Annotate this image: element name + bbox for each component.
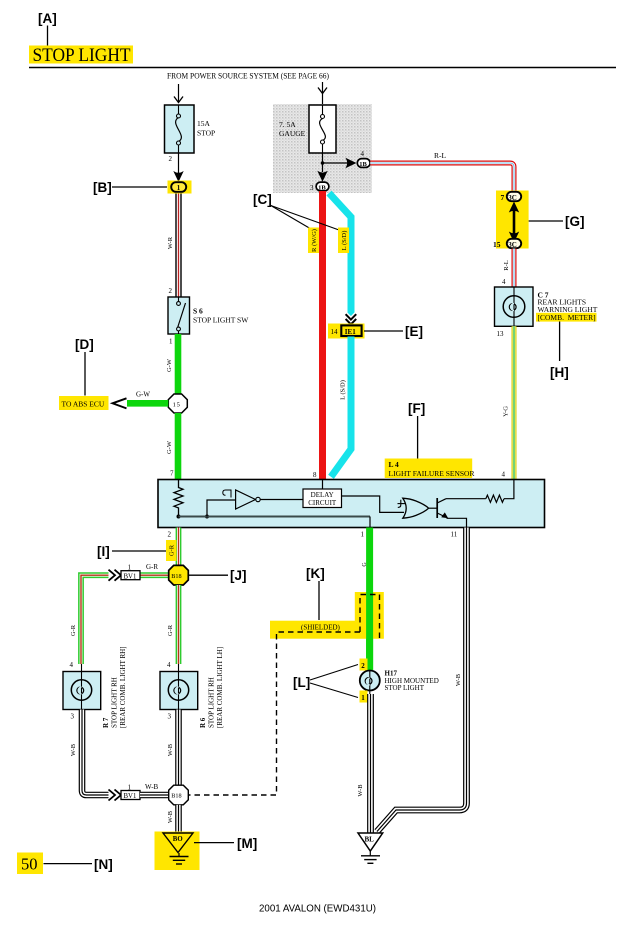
- svg-text:1B: 1B: [318, 184, 326, 191]
- svg-text:G-R: G-R: [169, 544, 176, 556]
- wire W-B BV1 to node B18 lower: [140, 783, 169, 795]
- switch S6 stop light sw: [168, 297, 249, 346]
- label M: [194, 836, 257, 851]
- svg-text:BO: BO: [173, 836, 183, 843]
- svg-text:1: 1: [177, 184, 181, 192]
- svg-text:STOP LIGHT RH: STOP LIGHT RH: [208, 677, 216, 728]
- svg-text:2001 AVALON (EWD431U): 2001 AVALON (EWD431U): [259, 903, 376, 915]
- svg-text:STOP LIGHT RH: STOP LIGHT RH: [111, 677, 119, 728]
- svg-text:STOP: STOP: [197, 129, 215, 138]
- bulb C7 rear lights warning light: [495, 287, 598, 338]
- svg-text:4: 4: [502, 278, 506, 286]
- svg-text:[J]: [J]: [230, 568, 247, 583]
- svg-text:15: 15: [173, 401, 181, 408]
- pin 4 and connector 1B (to R-L): [357, 150, 370, 168]
- wire gauge fuse junction: [317, 153, 356, 182]
- svg-text:15: 15: [493, 240, 501, 249]
- chevrons into BV1 lower: [109, 790, 122, 801]
- resistor R-out: [486, 495, 504, 502]
- svg-text:DELAY: DELAY: [311, 491, 334, 499]
- svg-text:BL: BL: [365, 836, 375, 844]
- delay circuit block: [303, 480, 342, 508]
- svg-text:W-B: W-B: [167, 810, 174, 823]
- power feed arrow to gauge fuse: [318, 82, 327, 105]
- wire G-W junction to sensor pin 7: [166, 413, 178, 480]
- svg-text:[M]: [M]: [237, 836, 257, 851]
- svg-text:GAUGE: GAUGE: [279, 129, 306, 138]
- svg-text:G: G: [362, 562, 368, 567]
- svg-text:IE1: IE1: [345, 328, 356, 336]
- svg-text:[B]: [B]: [93, 180, 112, 195]
- svg-text:G-W: G-W: [136, 391, 150, 399]
- page number 50: [17, 853, 43, 875]
- svg-text:B18: B18: [171, 573, 181, 580]
- title STOP LIGHT: [29, 45, 133, 66]
- connector 1 (B): [168, 181, 192, 194]
- bulb R7 stop light RH: [63, 646, 127, 728]
- svg-text:50: 50: [21, 855, 38, 874]
- svg-text:STOP LIGHT SW: STOP LIGHT SW: [193, 316, 249, 325]
- label J: [189, 568, 247, 583]
- wire gate to Q1: [429, 507, 438, 509]
- svg-text:(SHIELDED): (SHIELDED): [301, 623, 341, 631]
- wire L (S/D) cyan thick upper: [329, 193, 351, 325]
- svg-text:2: 2: [169, 287, 173, 295]
- wire G-R node B18 to R6: [167, 585, 179, 669]
- bulb R6 stop light LH: [160, 647, 224, 728]
- svg-text:1: 1: [361, 531, 365, 539]
- svg-text:R 7: R 7: [102, 717, 110, 728]
- svg-text:4: 4: [361, 150, 365, 158]
- node B18 (junction): [169, 565, 189, 585]
- svg-text:1B: 1B: [359, 161, 367, 168]
- svg-text:3: 3: [310, 184, 314, 192]
- title rule: [29, 67, 616, 69]
- connector 3C pair (G): [493, 191, 529, 250]
- svg-text:8: 8: [313, 471, 317, 479]
- svg-text:4: 4: [502, 471, 506, 479]
- svg-text:TO ABS ECU: TO ABS ECU: [62, 400, 105, 409]
- power feed arrow to 15A fuse: [174, 84, 183, 103]
- svg-text:G-W: G-W: [166, 358, 173, 372]
- wire label G-R highlighted: [166, 540, 177, 561]
- wire R-L horizontal: [370, 151, 514, 192]
- shield dashed outline: [189, 595, 380, 796]
- svg-text:13: 13: [497, 330, 505, 338]
- svg-text:2: 2: [361, 662, 365, 670]
- gray block (power source area): [273, 104, 372, 193]
- label K: [306, 566, 325, 620]
- wire G-R BV1 to R7: [70, 575, 109, 669]
- wire label R (W/G): [308, 228, 319, 254]
- label E: [364, 324, 423, 339]
- wire delay to gate: [342, 496, 405, 512]
- svg-text:[C]: [C]: [253, 192, 272, 207]
- chevrons into BV1 upper: [109, 570, 122, 581]
- wire W-B H17 to ground BL: [357, 694, 371, 833]
- svg-text:STOP LIGHT: STOP LIGHT: [385, 684, 425, 692]
- svg-text:3C: 3C: [508, 194, 517, 202]
- node B18 lower (junction): [169, 785, 189, 805]
- label F: [408, 401, 425, 459]
- svg-text:[A]: [A]: [38, 11, 57, 26]
- node junction dots: [177, 515, 181, 519]
- svg-text:BV1: BV1: [124, 793, 137, 800]
- wire to comparator input: [207, 500, 236, 517]
- wire label L (S/D): [338, 228, 349, 254]
- resistor R-in (pin7): [174, 480, 183, 517]
- pin 3 and connector 1B (to red wire): [310, 182, 329, 192]
- wire G-R node to BV1: [140, 563, 169, 575]
- svg-text:R-L: R-L: [434, 151, 447, 160]
- svg-text:11: 11: [451, 531, 458, 539]
- svg-text:1: 1: [361, 694, 365, 702]
- wire G-W S6 to junction 15: [166, 334, 178, 395]
- wire W-B sensor pin11 to ground BL: [377, 528, 467, 832]
- svg-text:[REAR COMB. LIGHT LH]: [REAR COMB. LIGHT LH]: [216, 647, 224, 728]
- wire R-L vertical to C7: [502, 249, 514, 287]
- connector 14 IE1: [328, 324, 365, 339]
- svg-text:W-B: W-B: [145, 783, 159, 791]
- connector 1 BV1 lower: [121, 784, 140, 801]
- svg-text:R-L: R-L: [503, 260, 510, 271]
- svg-text:G-R: G-R: [146, 563, 158, 571]
- svg-text:R 6: R 6: [199, 717, 207, 728]
- svg-text:Y-G: Y-G: [503, 406, 510, 417]
- wire W-B R7 to BV1 lower: [70, 710, 109, 796]
- svg-text:[L]: [L]: [293, 675, 310, 690]
- svg-text:BV1: BV1: [124, 573, 137, 580]
- wire L (S/D) cyan thick lower: [331, 337, 351, 477]
- svg-text:[I]: [I]: [97, 544, 110, 559]
- wire resistor to pin 4: [504, 480, 514, 499]
- svg-text:B18: B18: [171, 793, 181, 800]
- svg-text:3: 3: [168, 713, 172, 721]
- svg-text:7: 7: [170, 470, 174, 478]
- wire G-W to ABS ECU: [113, 391, 169, 409]
- svg-text:2: 2: [168, 531, 172, 539]
- svg-text:4: 4: [167, 661, 171, 669]
- svg-text:W-R: W-R: [167, 236, 174, 249]
- svg-text:L (S/D): L (S/D): [340, 380, 347, 400]
- ground BO: [155, 832, 200, 871]
- svg-text:L 4: L 4: [389, 460, 399, 469]
- svg-text:4: 4: [70, 661, 74, 669]
- label G: [529, 214, 585, 229]
- svg-text:14: 14: [331, 328, 339, 336]
- wire W-B node to ground BO: [167, 805, 179, 833]
- wire G-R sensor pin2 to node B18: [176, 528, 182, 567]
- wire internal bottom rail: [179, 516, 371, 518]
- chevrons into IE1: [346, 314, 357, 324]
- sensor pin labels: [168, 531, 458, 539]
- svg-text:[N]: [N]: [94, 857, 113, 872]
- svg-text:LIGHT FAILURE SENSOR: LIGHT FAILURE SENSOR: [389, 469, 475, 478]
- schmitt mark 2: [398, 500, 407, 508]
- label D: [75, 337, 94, 396]
- svg-text:[H]: [H]: [550, 365, 569, 380]
- transistor Q1: [437, 498, 448, 518]
- svg-text:2: 2: [169, 155, 173, 163]
- wire W-B R6 to node B18 lower: [167, 710, 179, 787]
- label C with leader lines: [253, 192, 339, 230]
- svg-text:FROM POWER SOURCE SYSTEM (SEE: FROM POWER SOURCE SYSTEM (SEE PAGE 66): [167, 72, 329, 81]
- svg-text:[E]: [E]: [405, 324, 423, 339]
- svg-text:7. 5A: 7. 5A: [279, 120, 296, 129]
- wire collector rail: [446, 498, 486, 500]
- wire Y-G C7 to sensor pin 4: [502, 326, 515, 479]
- ground BL: [358, 833, 383, 863]
- bulb H17 high mounted stop light: [360, 659, 439, 703]
- wire G through shield (over yellow): [366, 592, 373, 670]
- svg-text:CIRCUIT: CIRCUIT: [308, 499, 337, 507]
- svg-text:W-B: W-B: [167, 743, 174, 756]
- svg-text:[F]: [F]: [408, 401, 425, 416]
- connector 1 BV1 upper: [121, 564, 140, 581]
- svg-text:3: 3: [71, 713, 75, 721]
- svg-text:W-B: W-B: [70, 743, 77, 756]
- svg-text:G-R: G-R: [167, 624, 174, 636]
- label N: [44, 857, 113, 872]
- schmitt mark 1: [223, 490, 231, 498]
- svg-text:STOP LIGHT: STOP LIGHT: [33, 45, 131, 66]
- svg-text:[COMB. METER]: [COMB. METER]: [538, 313, 596, 322]
- svg-text:3C: 3C: [508, 241, 517, 249]
- node 15 junction: [168, 394, 187, 413]
- label TO ABS ECU: [59, 396, 109, 410]
- label L4 light failure sensor: [385, 459, 475, 479]
- wire internal to pin1: [369, 517, 371, 528]
- wire fuse to connector 1: [173, 153, 183, 182]
- svg-text:W-B: W-B: [455, 673, 462, 686]
- svg-text:[D]: [D]: [75, 337, 94, 352]
- svg-text:W-B: W-B: [357, 784, 364, 797]
- label A: [38, 11, 57, 46]
- svg-text:[G]: [G]: [565, 214, 585, 229]
- svg-text:G-R: G-R: [70, 624, 77, 636]
- gate U2 (OR): [403, 498, 429, 518]
- fuse F 15A STOP: [165, 105, 216, 153]
- wire emitter to pin 11: [447, 518, 467, 527]
- label L with leader lines: [293, 665, 358, 698]
- label H: [550, 322, 569, 381]
- svg-text:[REAR COMB. LIGHT RH]: [REAR COMB. LIGHT RH]: [119, 646, 127, 728]
- wire R (W/G) red thick: [319, 191, 326, 480]
- label I: [97, 544, 166, 559]
- svg-text:15A: 15A: [197, 119, 211, 128]
- svg-text:R (W/G): R (W/G): [311, 229, 318, 252]
- wire W-R connector1 to S6: [167, 194, 179, 298]
- svg-text:[K]: [K]: [306, 566, 325, 581]
- svg-text:1: 1: [169, 338, 173, 346]
- label B: [93, 180, 167, 195]
- wire G sensor pin1 to H17: [362, 528, 370, 671]
- svg-text:7: 7: [501, 193, 505, 202]
- comparator U1 (inverter): [236, 490, 261, 509]
- shield highlight yellow: [270, 592, 384, 639]
- svg-text:L (S/D): L (S/D): [341, 231, 348, 251]
- svg-text:G-W: G-W: [166, 440, 173, 454]
- svg-text:S 6: S 6: [193, 307, 203, 316]
- wire inverter to delay: [260, 499, 303, 501]
- fuse 7.5A GAUGE: [279, 105, 336, 153]
- light failure sensor L4 box: [158, 480, 545, 528]
